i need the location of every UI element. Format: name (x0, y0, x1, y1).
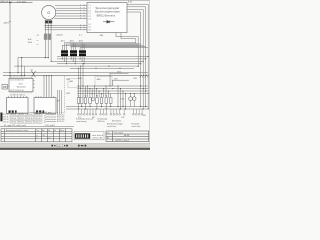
transformer feed line 4 (71, 46, 146, 50)
bus line C4 (77, 93, 148, 95)
current transformer T2 (48, 34, 51, 40)
border frame right (148, 0, 151, 144)
svg-text:675.13: 675.13 (3, 121, 8, 123)
svg-text:Klemmleiste: Klemmleiste (112, 119, 121, 122)
cable label grid (10, 113, 42, 124)
svg-text:zeichn.Liste: zeichn.Liste (132, 125, 141, 128)
wire bundle soft band (70, 43, 138, 47)
current transformer T1 (44, 34, 47, 40)
meter symbol M1 (91, 98, 94, 101)
lamp P2 (132, 97, 136, 101)
transformer output drops (62, 56, 84, 64)
svg-text:AB2: AB2 (70, 80, 73, 83)
K1 top stubs (9, 96, 27, 98)
parts table (1, 129, 72, 142)
K1 terminal marks (9, 110, 17, 113)
svg-text:675.16: 675.16 (11, 118, 16, 120)
extra right drops (118, 86, 126, 109)
bus line C1 (77, 85, 148, 87)
svg-text:21 22 23 24 25 26: 21 22 23 24 25 26 (10, 90, 24, 92)
transformer AT2 winding (70, 50, 77, 56)
svg-text:EB-2M: EB-2M (124, 135, 130, 137)
right box region label AB3 (95, 77, 112, 87)
svg-text:675.23: 675.23 (35, 122, 40, 124)
lamp stubs (131, 94, 135, 107)
svg-text:675.19: 675.19 (35, 118, 40, 120)
svg-text:2.2: 2.2 (88, 16, 90, 18)
terminal box MB (2, 85, 8, 90)
svg-text:2: 2 (37, 137, 38, 139)
svg-text:3.1: 3.1 (88, 24, 90, 26)
wire drops to relay K2 (44, 76, 52, 98)
title block (106, 131, 149, 142)
svg-text:B1: B1 (130, 1, 132, 3)
wire box right 3 (127, 9, 143, 61)
wire box right 4 (127, 12, 141, 64)
border frame top (0, 0, 150, 2)
DK3 feeder line (113, 79, 130, 81)
node junctions rotor bus (45, 25, 52, 26)
svg-text:100k: 100k (28, 42, 32, 44)
svg-text:K4: K4 (105, 96, 107, 98)
svg-text:a1: a1 (49, 137, 51, 139)
wire rotor line 2 (45, 27, 88, 29)
wire vdrop x18 (17, 58, 19, 73)
contactor coil row (77, 98, 112, 104)
wire CT drop 3 (50, 22, 52, 62)
svg-text:MB: MB (3, 86, 7, 89)
svg-text:Gepr. Name: Gepr. Name (114, 132, 123, 135)
stamp dark cartouche (75, 133, 90, 138)
svg-text:3.2: 3.2 (88, 27, 90, 29)
window bottom edge (0, 147, 150, 150)
svg-text:11 12 13 14 15 16: 11 12 13 14 15 16 (10, 79, 24, 81)
bus line B6 (70, 67, 134, 69)
bus line C3 (77, 90, 148, 92)
svg-text:-660.05: -660.05 (56, 35, 64, 37)
bus line D1 (66, 106, 148, 108)
generator brush block (45, 20, 52, 23)
node junction top (9, 2, 10, 3)
status bar icons (52, 145, 56, 147)
right feeder extensions down (141, 57, 149, 110)
svg-text:K1: K1 (78, 96, 80, 98)
svg-text:K2: K2 (84, 96, 86, 98)
wire stator phase 1 (55, 5, 87, 7)
control box U2 (9, 78, 33, 92)
svg-text:675.18: 675.18 (27, 118, 32, 120)
svg-text:2.1: 2.1 (88, 13, 90, 15)
left box region label AB2 (68, 79, 81, 88)
svg-text:-AB3: -AB3 (97, 78, 101, 81)
pin tick labels stator (81, 4, 85, 29)
svg-text:675.15: 675.15 (35, 114, 40, 116)
wire hline y57.6 (18, 57, 48, 59)
generator G1 (42, 5, 56, 19)
wire stator phase 6 (54, 18, 87, 20)
wires right of K2 (58, 90, 62, 114)
wire stator phase 2 (56, 7, 87, 9)
DK1 feeder line (110, 72, 129, 74)
svg-text:Synchrongenerator: Synchrongenerator (95, 10, 121, 14)
cabinet boundary dashed (64, 76, 66, 112)
svg-text:Steuerteil: Steuerteil (17, 86, 26, 89)
svg-text:DK3: DK3 (114, 79, 118, 81)
svg-text:ERE1/Siemens: ERE1/Siemens (97, 15, 116, 18)
svg-text:5MV 1kQ: 5MV 1kQ (98, 121, 106, 123)
svg-text:675.11: 675.11 (19, 114, 24, 116)
bus line B5 (14, 65, 138, 67)
contactor labels row (78, 96, 108, 98)
svg-text:zeichn.Liste: zeichn.Liste (107, 125, 116, 128)
svg-text:602: 602 (122, 117, 125, 119)
note blocks above title block (76, 117, 140, 128)
svg-text:-675_mit(?): -675_mit(?) (45, 124, 55, 127)
svg-text:675.14: 675.14 (27, 114, 32, 116)
transformer AT3 winding (79, 50, 86, 56)
bus C junctions (78, 63, 149, 94)
bus line B2 (57, 58, 146, 60)
svg-text:1.1: 1.1 (88, 5, 90, 7)
wire top tick right (128, 1, 130, 3)
vertical drops middle to component row (78, 64, 110, 98)
svg-text:1 2 3 4 5 6 7 8 9 0 1: 1 2 3 4 5 6 7 8 9 0 1 (10, 76, 25, 78)
K2 top stubs (36, 96, 54, 98)
wire stator phase 3 (56, 10, 87, 12)
svg-text:Gen.: Gen. (19, 84, 24, 86)
contactor bottom drops (78, 103, 110, 109)
svg-text:-DK1: -DK1 (133, 78, 137, 80)
svg-text:3.3: 3.3 (88, 29, 90, 31)
svg-text:675.17: 675.17 (19, 118, 24, 120)
wire box right 1 (127, 4, 148, 56)
terminal strip circles row (78, 109, 143, 115)
svg-text:675.22: 675.22 (27, 122, 32, 124)
wire box bottom drop 2 (121, 33, 136, 43)
cable callouts right (44, 115, 56, 123)
svg-text:2.3: 2.3 (88, 19, 90, 21)
U2 bottom pin ticks (11, 92, 31, 93)
regulator box U1 (87, 3, 127, 33)
transformer feed stubs (73, 43, 84, 50)
bus line B4 (57, 63, 141, 65)
svg-text:ST_aggr. 675_mit(1_ancl): ST_aggr. 675_mit(1_ancl) (4, 124, 26, 127)
transformer AT1 winding (61, 50, 68, 56)
bus line D2 (66, 108, 148, 110)
bus line main L2 (3, 75, 148, 77)
wire rotor line 3 (45, 29, 88, 31)
svg-text:Siemens AG: Siemens AG (93, 137, 104, 140)
note above table (0, 126, 74, 128)
svg-text:-Q1: -Q1 (30, 70, 33, 72)
svg-text:-677.10 B: -677.10 B (17, 1, 27, 3)
svg-text:1.2: 1.2 (88, 8, 90, 10)
transformer feed line 1 (64, 43, 136, 50)
svg-text:Typ: Typ (36, 130, 39, 132)
cable tag block left (0, 113, 2, 122)
wire rotor line 1 (45, 25, 88, 27)
wire left feeder vertical (9, 3, 11, 79)
svg-text:675.20: 675.20 (11, 122, 16, 124)
svg-text:-660.0: -660.0 (3, 22, 10, 24)
svg-text:(MT_antr): (MT_antr) (44, 111, 52, 114)
transformer feed line 3 (62, 45, 143, 50)
bus line main L1 (3, 72, 148, 74)
lamp P1 (129, 97, 133, 101)
wire top bus (0, 2, 33, 4)
diode symbol inside regulator (103, 20, 115, 23)
wire CT drop 2 (47, 20, 49, 58)
svg-text:601: 601 (143, 115, 146, 117)
wire MB to U2 (8, 86, 10, 88)
U2 top pin ticks (11, 77, 31, 78)
bus end junctions (51, 56, 149, 67)
fuse symbol F1 (32, 71, 36, 77)
svg-text:crane bearing: crane bearing (76, 120, 86, 123)
transformer feed line 2 (66, 44, 140, 50)
wire box right 2 (127, 7, 146, 59)
bus line B1 (57, 56, 148, 58)
transformer feed line 5 (80, 48, 148, 51)
bus line C2 (77, 88, 148, 90)
wire stator phase 4 (56, 12, 87, 14)
svg-text:675.21: 675.21 (19, 122, 24, 124)
wire stator phase 5 (55, 15, 87, 17)
svg-text:K3: K3 (96, 96, 98, 98)
contact slashes on feeders (140, 75, 149, 78)
svg-text:Benennung und techn. Daten: Benennung und techn. Daten (6, 129, 28, 132)
table cell marks (37, 135, 51, 139)
svg-text:R4: R4 (43, 135, 45, 137)
wire box bottom drop 1 (116, 33, 138, 67)
relay box K2 (34, 98, 56, 114)
svg-text:B.675.2-7: B.675.2-7 (57, 121, 64, 123)
wire vdrop x24.5 (24, 66, 26, 76)
wire CT drop 1 (44, 20, 46, 58)
svg-text:Bem: Bem (60, 130, 64, 132)
viewer status bar (0, 142, 150, 145)
svg-text:B.675.10 - Seite 4: B.675.10 - Seite 4 (116, 139, 130, 142)
stamp box Anlage (74, 132, 104, 140)
K2 terminal marks (36, 110, 44, 113)
wire vdrop x21.7 (21, 58, 23, 76)
U2 right edge stubs (33, 81, 35, 88)
relay box K1 (7, 98, 29, 114)
bus line B3 (51, 60, 143, 62)
svg-text:1.3: 1.3 (88, 10, 90, 12)
svg-text:675.10: 675.10 (11, 114, 16, 116)
regulator pin labels left column (88, 5, 90, 31)
